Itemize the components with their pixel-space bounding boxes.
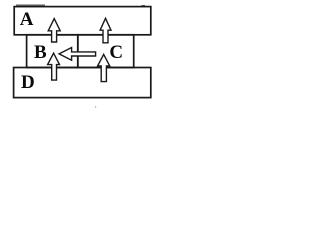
arrow C to B (left) — [59, 48, 96, 61]
arrow D to B (up) — [48, 53, 60, 80]
box D — [14, 68, 151, 98]
svg-text:D: D — [21, 72, 35, 93]
arrow C to A (up) — [100, 18, 111, 43]
arrow B to A (up) — [48, 19, 60, 42]
svg-text:A: A — [20, 9, 34, 30]
speck — [95, 106, 96, 107]
box C — [78, 35, 134, 68]
arrow D to C (up) — [98, 54, 110, 81]
svg-text:C: C — [109, 42, 123, 63]
box B — [27, 35, 78, 68]
box A — [14, 7, 151, 35]
scan artifact above box A top-right — [142, 5, 146, 6]
background — [0, 0, 160, 110]
svg-text:B: B — [34, 42, 47, 63]
scan artifact above box A top-left — [16, 5, 45, 6]
